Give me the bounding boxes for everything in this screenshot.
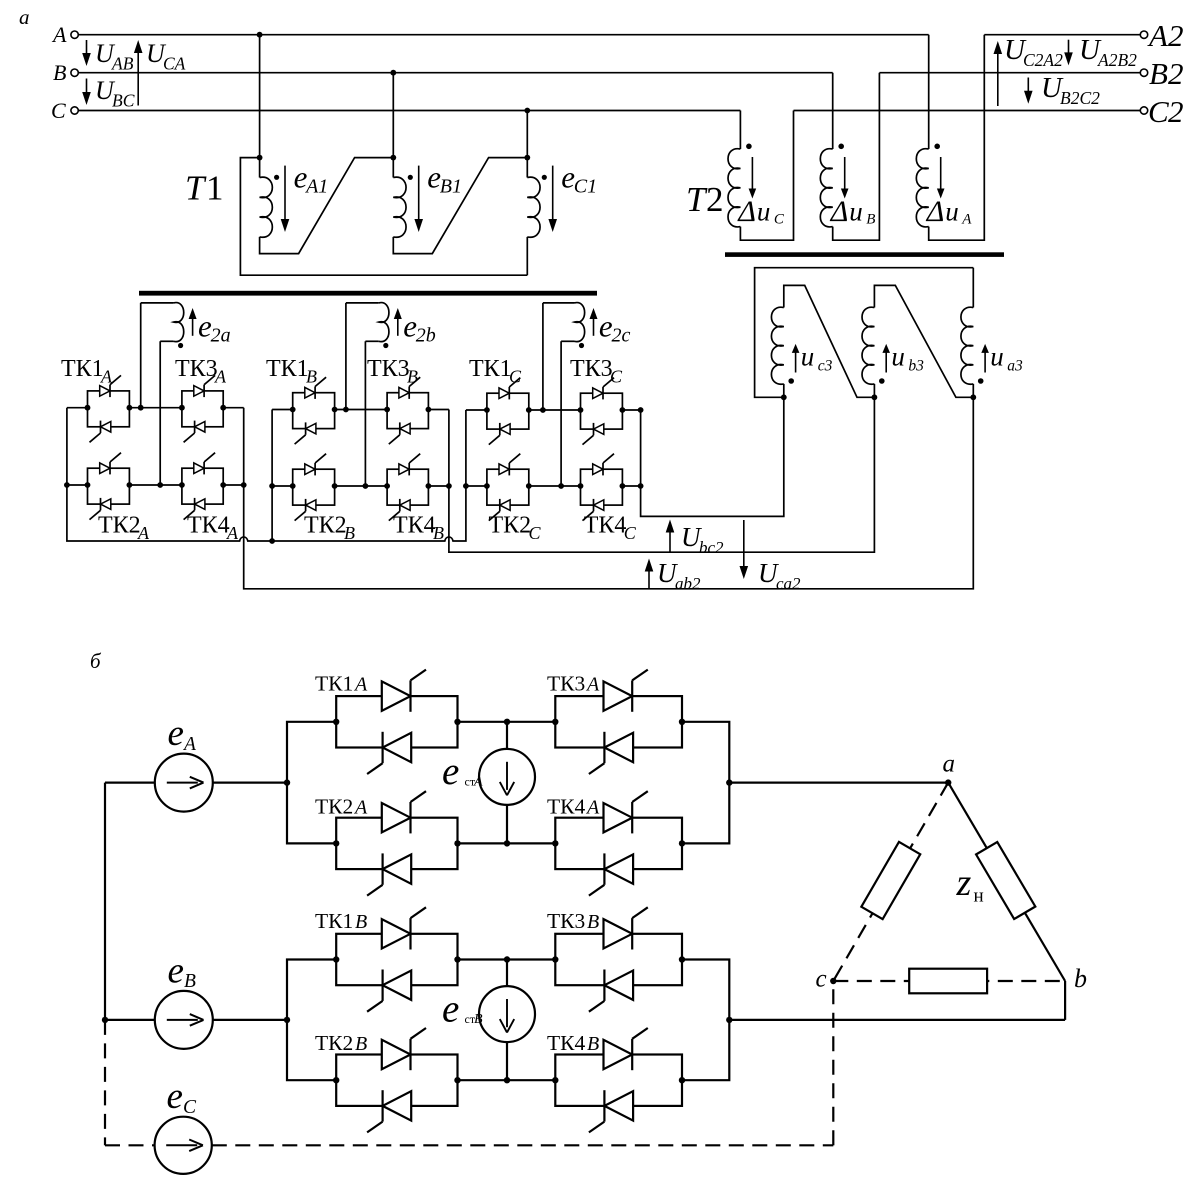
label TK2B: [315, 1031, 367, 1055]
svg-text:ТК4: ТК4: [547, 794, 585, 818]
load impedance on edge a-c: [861, 842, 920, 919]
thyristor switch TK1_C: [484, 378, 532, 445]
svg-text:T: T: [686, 180, 708, 219]
svg-text:A: A: [100, 367, 113, 387]
thyristor switch TK1_B: [290, 377, 338, 444]
svg-text:1: 1: [206, 169, 224, 208]
svg-text:A: A: [585, 673, 600, 695]
svg-text:ТК2: ТК2: [315, 1031, 353, 1055]
wire mid rows phase A: [458, 719, 556, 847]
svg-text:B: B: [407, 367, 418, 387]
svg-text:C: C: [509, 367, 522, 387]
thyristor switch TK4_B: [384, 454, 431, 521]
wire module C output to winding u_c3: [638, 394, 787, 516]
svg-text:e: e: [168, 713, 184, 754]
svg-text:ТК3: ТК3: [547, 909, 585, 933]
voltage label U_bc2: [666, 520, 724, 558]
wire T1 tap from phase B: [390, 70, 396, 158]
svg-text:A2B2: A2B2: [1097, 50, 1137, 70]
thyristor switch TK4_A: [179, 453, 226, 520]
svg-text:B: B: [355, 1033, 367, 1055]
svg-text:ТК2: ТК2: [489, 513, 532, 539]
T1 primary winding e_A1: [257, 155, 394, 254]
svg-text:C1: C1: [574, 176, 597, 198]
terminal A: [51, 22, 78, 47]
thyristor switch TK3A: [552, 670, 685, 774]
thyristor switch TK4A: [552, 791, 685, 895]
svg-text:B1: B1: [440, 176, 462, 198]
label TK3_A: [175, 356, 227, 387]
svg-text:Δ: Δ: [926, 195, 945, 228]
svg-text:A: A: [137, 523, 150, 543]
svg-text:ТК2: ТК2: [304, 513, 347, 539]
svg-text:B: B: [355, 911, 367, 933]
load impedance z_H on edge a-b: [956, 842, 1036, 919]
wire input split node phase A: [287, 722, 336, 844]
svg-text:B: B: [866, 212, 875, 228]
transformer T1 label: [185, 169, 224, 208]
svg-text:u: u: [849, 197, 863, 227]
svg-text:ab2: ab2: [675, 574, 701, 593]
svg-text:A: A: [585, 796, 600, 818]
svg-text:2: 2: [1168, 94, 1184, 129]
svg-text:2c: 2c: [612, 325, 631, 347]
T2 secondary winding u_c3: [771, 285, 874, 397]
svg-text:н: н: [974, 886, 984, 907]
T2 series winding Δu_A: [916, 35, 984, 241]
voltage label U_AB: [82, 39, 133, 74]
transformer T2 label: [686, 180, 724, 219]
svg-text:e: e: [442, 987, 459, 1030]
svg-text:B: B: [433, 523, 444, 543]
svg-text:B: B: [184, 971, 196, 992]
label TK1_A: [61, 356, 113, 387]
svg-text:ТК2: ТК2: [315, 794, 353, 818]
svg-text:c3: c3: [818, 358, 833, 375]
svg-text:б: б: [90, 649, 102, 673]
svg-text:z: z: [956, 862, 972, 904]
wire common left rail: [102, 783, 108, 1024]
wire module A input rail and bus to modules B,C inputs: [64, 408, 469, 544]
load impedance on edge c-b: [909, 969, 987, 994]
label TK1A: [315, 671, 368, 695]
label TK3_B: [367, 356, 418, 387]
thyristor switch TK3_C: [578, 378, 626, 445]
wire module B input rail: [269, 410, 275, 542]
wire dashed load edge a-c: [833, 783, 948, 981]
svg-text:ТК1: ТК1: [61, 356, 104, 382]
T1 secondary winding e_2b: [343, 303, 436, 489]
svg-text:B2C2: B2C2: [1060, 88, 1100, 108]
wire dashed left rail to e_C: [105, 1020, 155, 1145]
svg-text:a: a: [19, 5, 30, 29]
svg-text:C: C: [51, 98, 66, 123]
svg-text:C: C: [610, 367, 623, 387]
voltage label U_ca2: [740, 520, 802, 593]
wire dashed load edge c-b: [833, 980, 1065, 982]
thyristor switch TK3B: [552, 907, 685, 1011]
svg-text:a: a: [943, 751, 956, 778]
svg-text:ТК3: ТК3: [175, 356, 218, 382]
thyristor switch TK1A: [333, 670, 461, 774]
T1 secondary winding e_2a: [138, 303, 231, 488]
svg-text:bc2: bc2: [699, 538, 724, 557]
T2 series winding Δu_C: [728, 111, 793, 241]
svg-text:B: B: [344, 523, 355, 543]
svg-text:ТК3: ТК3: [570, 356, 613, 382]
EMF source e_стA: [442, 722, 535, 844]
svg-text:A: A: [353, 796, 368, 818]
svg-text:ТК4: ТК4: [584, 513, 627, 539]
svg-text:A: A: [51, 22, 67, 47]
label TK4_B: [393, 513, 444, 544]
label TK4_A: [187, 513, 239, 544]
svg-text:ТК1: ТК1: [315, 671, 353, 695]
svg-text:C: C: [1148, 94, 1169, 129]
wire A2 line: [984, 34, 1140, 36]
wire top row module A: [67, 407, 244, 409]
T2 secondary winding u_b3: [862, 285, 973, 397]
svg-text:ТК4: ТК4: [547, 1031, 585, 1055]
svg-text:BC: BC: [112, 91, 135, 111]
svg-text:e: e: [167, 1076, 183, 1117]
wire source e_B to module: [105, 1017, 290, 1023]
wire T2 secondary top rail and left return: [755, 268, 974, 398]
node c: [816, 966, 837, 993]
wire mid rows phase B: [458, 956, 556, 1083]
svg-text:A: A: [182, 734, 196, 755]
thyristor switch TK2A: [333, 791, 461, 895]
svg-text:ТК1: ТК1: [315, 909, 353, 933]
label TK1_C: [469, 356, 522, 387]
voltage label U_BC: [82, 76, 134, 111]
svg-text:C: C: [774, 212, 785, 228]
core bar of transformer T2: [725, 252, 1004, 257]
wire module A output rail and bus U_ab2 to winding u_a3: [241, 394, 976, 588]
voltage label U_B2C2: [1024, 72, 1100, 108]
svg-text:A: A: [214, 367, 227, 387]
svg-text:2: 2: [706, 180, 724, 219]
wire top row module C: [466, 409, 641, 411]
thyristor switch TK2_A: [85, 453, 133, 520]
label TK4B: [547, 1031, 599, 1055]
wire top row module B: [272, 409, 449, 411]
EMF source e_B: [155, 950, 213, 1049]
wire module B output rail and bus U_bc2 to winding u_b3: [446, 394, 877, 552]
svg-text:A: A: [353, 673, 368, 695]
svg-text:A: A: [473, 775, 483, 790]
svg-text:C: C: [624, 523, 637, 543]
thyristor switch TK3_A: [179, 375, 226, 442]
terminal B2: [1140, 56, 1183, 91]
svg-text:ТК3: ТК3: [547, 671, 585, 695]
thyristor switch TK4_C: [578, 454, 626, 521]
figure label б: [90, 649, 102, 673]
thyristor switch TK3_B: [384, 377, 431, 444]
svg-text:B: B: [306, 367, 317, 387]
EMF source e_A: [155, 713, 213, 812]
svg-text:ТК3: ТК3: [367, 356, 410, 382]
svg-text:AB: AB: [111, 54, 134, 74]
terminal C: [51, 98, 78, 123]
svg-text:2b: 2b: [416, 325, 436, 347]
svg-text:u: u: [945, 197, 959, 227]
wire bottom row module B: [272, 485, 449, 487]
T2 secondary winding u_a3: [961, 268, 1023, 398]
svg-text:B: B: [53, 60, 66, 85]
label TK4A: [547, 794, 600, 818]
wire B2 line: [879, 72, 1140, 74]
wire source e_A to module: [105, 779, 290, 785]
label TK3A: [547, 671, 600, 695]
svg-text:c: c: [816, 966, 827, 993]
T1 primary winding e_B1: [390, 155, 527, 254]
svg-text:CA: CA: [163, 54, 186, 74]
svg-text:b: b: [1074, 964, 1087, 993]
svg-text:ca2: ca2: [776, 574, 801, 593]
svg-text:u: u: [757, 197, 771, 227]
thyristor switch TK2_C: [484, 454, 532, 521]
svg-text:A: A: [1147, 18, 1169, 53]
thyristor switch TK2B: [333, 1028, 461, 1132]
svg-text:A1: A1: [304, 176, 328, 198]
label TK3B: [547, 909, 599, 933]
label TK2_A: [98, 513, 150, 544]
svg-text:C: C: [183, 1097, 197, 1118]
EMF source e_стB: [442, 960, 535, 1081]
svg-text:B: B: [1149, 56, 1168, 91]
terminal C2: [1140, 94, 1183, 129]
wire output node phase A: [682, 722, 733, 844]
label TK4_C: [584, 513, 637, 544]
svg-text:ТК4: ТК4: [187, 513, 230, 539]
wire T1 tap from phase A: [257, 32, 263, 158]
figure label a: [19, 5, 30, 29]
voltage label U_CA: [134, 39, 186, 106]
wire phase B line: [78, 72, 832, 74]
wire load edge a-b: [948, 783, 1065, 981]
terminal A2: [1140, 18, 1183, 53]
svg-text:ТК4: ТК4: [393, 513, 436, 539]
wire T1 tap from phase C: [524, 108, 530, 158]
wire phase A output to node a: [729, 781, 948, 783]
T1 primary winding e_C1: [524, 155, 597, 276]
svg-text:C2A2: C2A2: [1023, 50, 1063, 70]
svg-text:e: e: [168, 950, 184, 991]
core bar of transformer T1: [139, 291, 597, 296]
voltage label U_C2A2: [994, 34, 1064, 106]
wire dashed phase C line to node c: [212, 981, 834, 1145]
wire phase C line: [78, 110, 740, 112]
label TK2A: [315, 794, 368, 818]
svg-text:e: e: [442, 750, 459, 793]
svg-text:ТК1: ТК1: [469, 356, 512, 382]
thyristor switch TK2_B: [290, 454, 338, 521]
wire output node phase B: [682, 960, 733, 1081]
svg-text:B: B: [587, 911, 599, 933]
svg-text:ТК2: ТК2: [98, 513, 141, 539]
wire phase B output to node b: [729, 981, 1065, 1020]
wire input split node phase B: [287, 960, 336, 1081]
svg-text:u: u: [801, 342, 815, 372]
label TK2_C: [489, 513, 542, 544]
node a: [943, 751, 956, 786]
T1 secondary winding e_2c: [540, 303, 631, 489]
label TK3_C: [570, 356, 623, 387]
svg-text:2: 2: [1168, 56, 1184, 91]
svg-text:Δ: Δ: [737, 195, 756, 228]
thyristor switch TK4B: [552, 1028, 685, 1132]
svg-text:Δ: Δ: [830, 195, 849, 228]
svg-text:A: A: [961, 212, 972, 228]
T2 series winding Δu_B: [820, 73, 879, 241]
wire bottom row module A: [67, 484, 244, 486]
svg-text:T: T: [185, 169, 207, 208]
wire phase A line: [78, 34, 928, 36]
voltage label U_A2B2: [1064, 34, 1137, 70]
terminal B: [53, 60, 78, 85]
thyristor switch TK1_A: [85, 375, 133, 442]
wire T1 delta return (left and bottom): [240, 158, 527, 276]
label TK1B: [315, 909, 367, 933]
thyristor switch TK1B: [333, 907, 461, 1011]
wire bottom row module C: [466, 485, 641, 487]
svg-text:2: 2: [1168, 18, 1184, 53]
svg-text:ТК1: ТК1: [266, 356, 309, 382]
wire C2 line: [794, 110, 1141, 112]
svg-text:b3: b3: [908, 358, 924, 375]
label TK1_B: [266, 356, 317, 387]
voltage label U_ab2: [645, 558, 701, 593]
svg-text:B: B: [474, 1012, 483, 1027]
svg-text:B: B: [587, 1033, 599, 1055]
svg-text:a3: a3: [1007, 358, 1023, 375]
svg-text:A: A: [226, 523, 239, 543]
svg-text:2a: 2a: [211, 325, 231, 347]
label TK2_B: [304, 513, 355, 544]
svg-text:C: C: [529, 523, 542, 543]
EMF source e_C: [155, 1076, 212, 1174]
svg-text:u: u: [891, 342, 905, 372]
node b: [1074, 964, 1087, 993]
svg-text:u: u: [990, 342, 1004, 372]
